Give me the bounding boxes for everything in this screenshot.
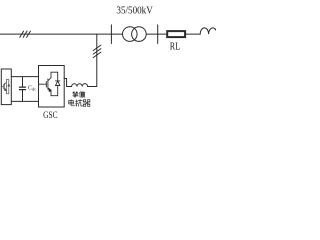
converter GSC box (39, 66, 65, 108)
wire transformer to resistor (146, 33, 166, 35)
transformer T1 winding 1 (123, 27, 138, 42)
svg-text:Cdc: Cdc (28, 86, 36, 92)
svg-text:RL: RL (170, 42, 180, 53)
wire GSC output jog (64, 79, 71, 87)
inductor grid equivalent (cut at edge) (200, 28, 217, 34)
inductor equivalent reactor coil (72, 84, 88, 87)
three-phase slash marks on drop wire (93, 45, 101, 58)
label 电抗器 (reactor) hand-drawn glyphs (69, 100, 90, 107)
svg-text:35/500kV: 35/500kV (116, 5, 153, 17)
node tick (transformer HV side) (157, 25, 159, 44)
three-phase slash marks on bus (20, 31, 31, 37)
wire main AC bus (left segment) (0, 33, 123, 35)
transformer T1 winding 2 (132, 27, 147, 42)
transistor mini IGBT in MSC (1, 80, 9, 94)
wire DC link top rail (11, 76, 38, 78)
node tick (transformer LV side) (110, 25, 112, 44)
label 等值 (equivalent) hand-drawn glyphs (73, 92, 85, 98)
converter MSC box (machine side, cut at left) (1, 69, 11, 105)
transistor IGBT Q1 in GSC (39, 72, 52, 96)
diode D1 antiparallel in GSC (51, 72, 60, 96)
wire drop from bus to GSC branch (96, 34, 98, 86)
wire DC link bottom rail (11, 100, 38, 102)
capacitor Cdc leads (22, 77, 24, 88)
resistor RL body (167, 31, 185, 37)
wire resistor to grid inductor (186, 33, 200, 35)
capacitor Cdc plates (20, 87, 26, 90)
wire coil to bus drop (88, 86, 97, 88)
svg-text:GSC: GSC (43, 110, 58, 120)
